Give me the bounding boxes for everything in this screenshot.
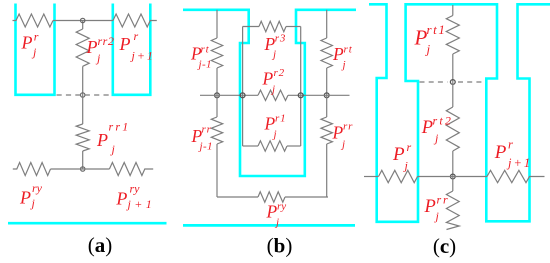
svg-text:r: r [407, 140, 412, 154]
node L2 row (b) [240, 93, 245, 98]
resistor Prr_j-1 (b) [211, 117, 222, 144]
wire outer-left below row (b) [216, 95, 218, 117]
value label Prt2_j (c) [421, 114, 453, 146]
resistor Pr2_j (b) [258, 90, 288, 100]
value label Pr_j (c) [392, 140, 412, 173]
node L1 row (b) [215, 93, 220, 98]
dashed net right (c) [458, 81, 485, 83]
value label Pry_j (a) [19, 181, 43, 210]
wire to node E (c) [452, 151, 454, 177]
svg-text:rr1: rr1 [109, 120, 131, 134]
wire node B down (a) [82, 95, 84, 124]
wire outer bottom-left (b) [217, 196, 258, 198]
wire outer-left to row (b) [216, 68, 218, 95]
resistor Prr1_j (a) [76, 124, 89, 151]
wire inner right vertical (b) [300, 27, 302, 147]
value label Prt_j-1 (b) [190, 43, 212, 70]
node R2 row (b) [298, 93, 303, 98]
svg-text:j+1: j+1 [130, 49, 155, 63]
svg-text:rt2: rt2 [433, 114, 454, 128]
svg-text:rt: rt [344, 44, 353, 56]
svg-text:ry: ry [277, 201, 286, 213]
node R1 row (b) [324, 93, 329, 98]
dashed net left (c) [420, 81, 448, 83]
value label Pr_j (a) [21, 29, 39, 59]
value label Pry_j (b) [266, 201, 287, 229]
wire node D down (c) [452, 82, 454, 107]
value label Prr_j (c) [424, 193, 450, 224]
value label Pry_j+1 (a) [115, 182, 155, 212]
resistor Prt_j (b) [321, 38, 332, 68]
wire to node C (a) [82, 151, 84, 169]
wire center to node D (c) [452, 54, 454, 82]
value label Pr1_j (b) [264, 113, 287, 141]
cyan ground plate line (b) [183, 224, 355, 227]
svg-text:P: P [424, 197, 436, 217]
wire top row (a) [53, 20, 113, 22]
resistor Pr1_j (b) [258, 141, 287, 151]
svg-text:r: r [508, 138, 513, 152]
svg-text:j-1: j-1 [197, 59, 212, 71]
resistor Prt1_j (c) [446, 16, 459, 55]
svg-text:P: P [119, 34, 131, 54]
value label Pr_j+1 (a) [119, 29, 155, 63]
resistor Prr_j (c) [446, 191, 459, 230]
wire outer-right below row (b) [326, 95, 328, 117]
svg-text:r3: r3 [275, 33, 286, 45]
svg-text:P: P [494, 142, 507, 163]
wire node E down (c) [452, 177, 454, 192]
wire outer bottom-right (b) [285, 196, 328, 198]
wire row mid (c) [418, 176, 488, 178]
wire center top (c) [452, 5, 454, 16]
resistor Pr_j+1 (c) [487, 170, 545, 182]
svg-text:r1: r1 [275, 113, 286, 125]
wire outer-right to bottom (b) [326, 144, 328, 197]
node D (c) [450, 80, 455, 85]
resistor Pr3_j (b) [259, 21, 286, 31]
wire outer-right to row (b) [326, 68, 328, 95]
svg-text:rr2: rr2 [98, 34, 115, 48]
svg-text:j-1: j-1 [198, 141, 213, 153]
svg-text:r: r [134, 29, 139, 43]
svg-text:P: P [414, 26, 428, 50]
svg-text:P: P [19, 188, 31, 208]
svg-text:P: P [421, 118, 433, 138]
node C bottom (a) [81, 167, 85, 171]
svg-text:ry: ry [32, 181, 43, 195]
wire row left (c) [364, 176, 379, 178]
svg-text:r: r [34, 29, 39, 43]
wire inner left vertical (b) [242, 27, 244, 147]
value label Pr_j+1 (c) [494, 138, 532, 171]
wire row right tail (b) [288, 94, 350, 96]
svg-text:rr: rr [437, 193, 450, 207]
svg-text:P: P [392, 144, 405, 165]
value label Prr2_j (a) [86, 34, 115, 65]
value label Pr3_j (b) [264, 33, 287, 61]
svg-text:P: P [86, 37, 98, 57]
resistor Pry_j (a) [13, 163, 51, 176]
node B mid (a) [81, 93, 85, 97]
value label Prt1_j (c) [414, 22, 447, 57]
cyan region boundary comb (c) [369, 4, 550, 222]
resistor Pr_j (c) [379, 170, 418, 182]
svg-text:j+1: j+1 [506, 156, 532, 170]
resistor Pr_j+1 (a) [113, 14, 157, 27]
resistor Prr_j (b) [321, 117, 332, 144]
wire row left tail (b) [200, 94, 258, 96]
svg-text:rr: rr [343, 121, 353, 133]
wire from node A down (a) [82, 21, 84, 30]
resistor Prr2_j (a) [76, 29, 89, 66]
svg-text:P: P [115, 189, 127, 209]
wire inner top-left (b) [243, 26, 259, 28]
wire bottom row (a) [51, 168, 110, 170]
cyan region boundary snake (b) [183, 10, 356, 176]
value label Prr_j (b) [332, 121, 354, 151]
svg-text:(c): (c) [433, 234, 456, 258]
wire inner top-right (b) [286, 26, 301, 28]
dashed net line (a) [57, 94, 111, 96]
value label Prt_j (b) [332, 44, 353, 72]
svg-text:r2: r2 [274, 67, 285, 79]
svg-text:P: P [96, 130, 108, 150]
wire outer-left to bottom (b) [216, 144, 218, 197]
resistor Pry_j (b) [258, 192, 285, 202]
value label Prr_j-1 (b) [191, 124, 213, 153]
wire outer-left top (b) [216, 10, 218, 38]
svg-text:ry: ry [130, 182, 141, 196]
wire inner bottom-left (b) [243, 145, 258, 147]
svg-text:(a): (a) [88, 233, 113, 257]
svg-text:(b): (b) [267, 234, 293, 258]
resistor Pry_j+1 (a) [109, 163, 153, 176]
value label Pr2_j (b) [262, 67, 285, 96]
cyan region boundary U-left (a) [16, 4, 55, 95]
cyan region boundary U-right (a) [113, 4, 151, 95]
node A top (a) [81, 18, 85, 22]
svg-text:P: P [21, 33, 33, 53]
cyan ground plate line (a) [8, 222, 167, 225]
wire inner bottom-right (b) [287, 145, 301, 147]
svg-text:rt1: rt1 [427, 22, 447, 37]
value label Prr1_j (a) [96, 120, 130, 157]
resistor Pr_j (a) [13, 14, 54, 27]
svg-text:rr: rr [202, 124, 212, 136]
wire to node B (a) [82, 66, 84, 95]
node E (c) [450, 174, 455, 179]
wire outer-right top (b) [326, 10, 328, 38]
svg-text:j+1: j+1 [126, 197, 156, 211]
resistor Prt_j-1 (b) [211, 38, 222, 68]
svg-text:rt: rt [201, 43, 210, 55]
resistor Prt2_j (c) [446, 107, 459, 151]
